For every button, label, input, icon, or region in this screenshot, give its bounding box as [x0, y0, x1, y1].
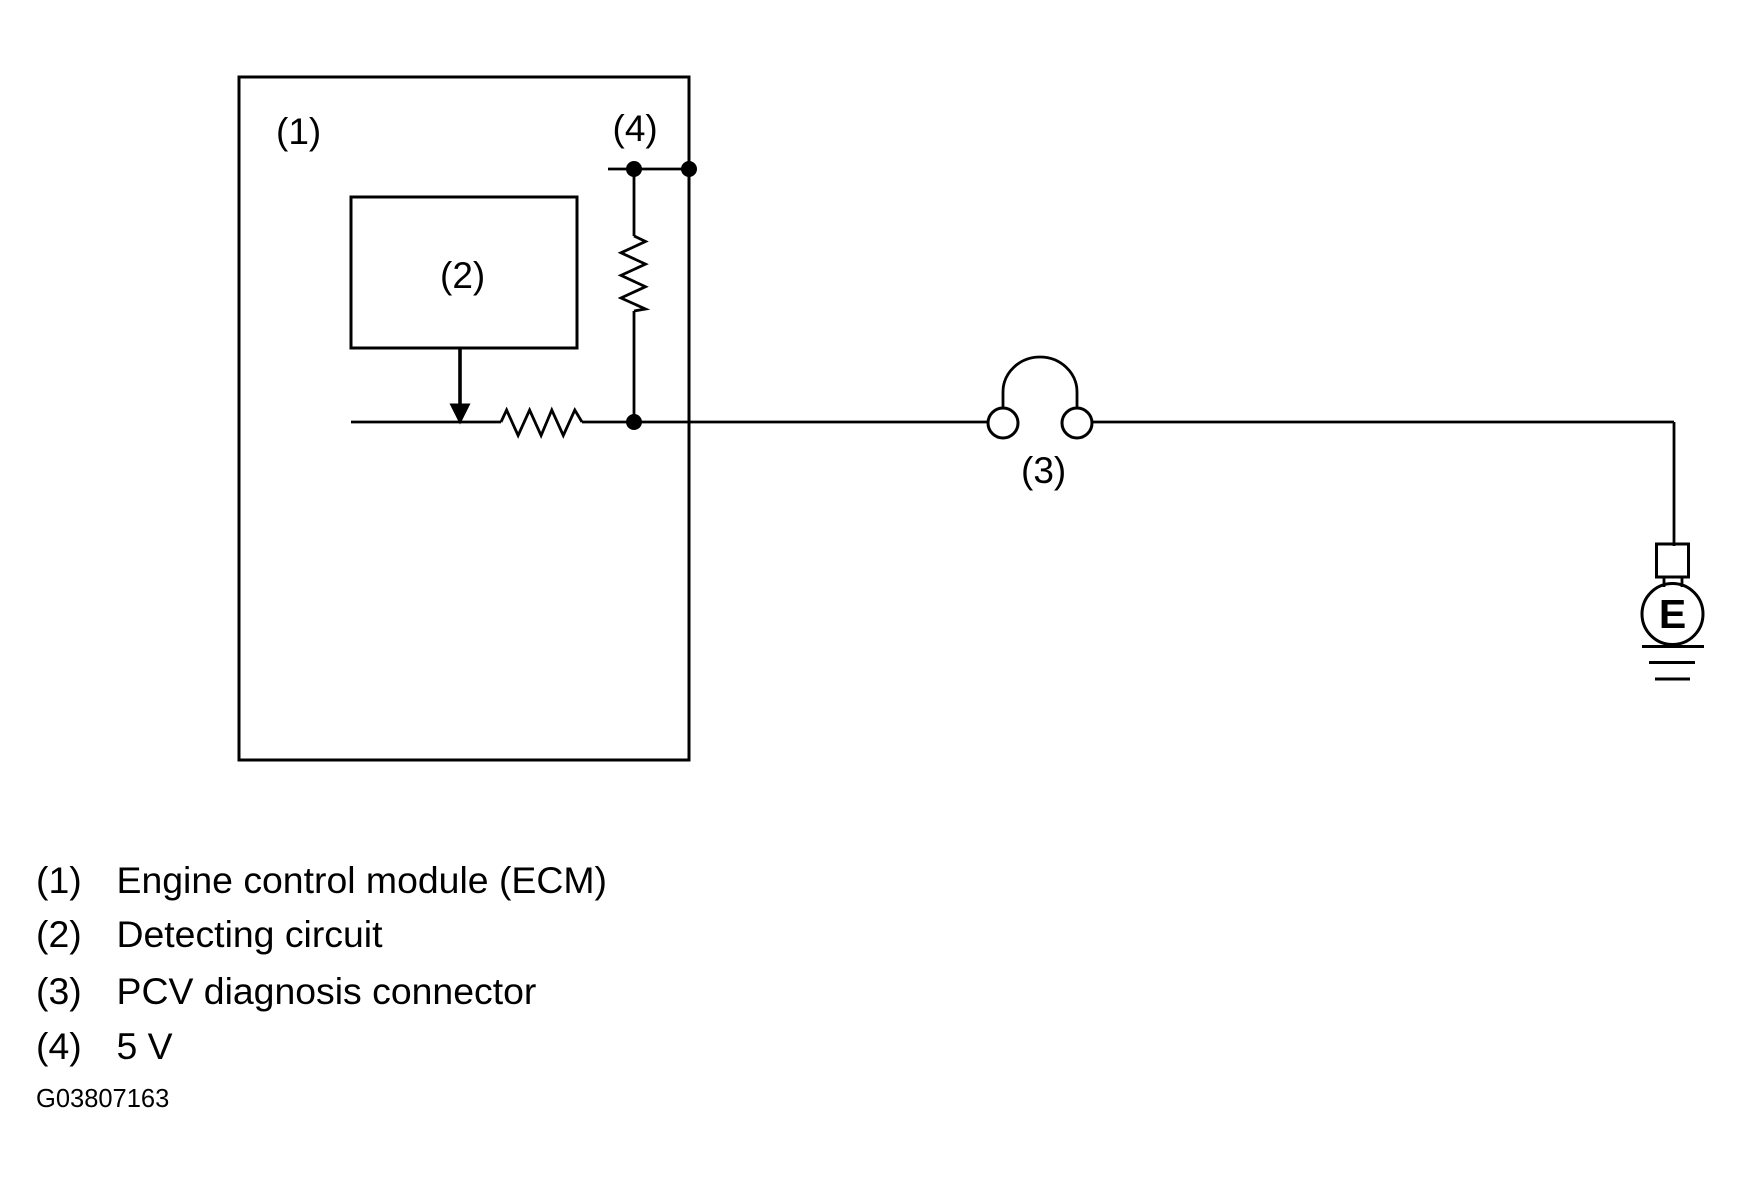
svg-text:Detecting circuit: Detecting circuit: [117, 913, 384, 955]
arrowhead into signal wire: [450, 404, 471, 425]
wire 5V supply horizontal: [608, 168, 689, 171]
connector housing rectangle: [1657, 544, 1689, 577]
node junction dot at 5V left: [626, 161, 642, 177]
resistor R2 series zigzag: [501, 410, 582, 436]
svg-text:(2): (2): [440, 255, 485, 296]
svg-text:5 V: 5 V: [117, 1025, 173, 1067]
svg-text:(1): (1): [276, 111, 321, 152]
wire connector to right corner: [1092, 421, 1674, 424]
wire signal left segment: [351, 421, 501, 424]
wire down to ground connector: [1673, 422, 1676, 546]
connector pin circle right: [1062, 408, 1092, 438]
wire arrow shaft from detecting circuit: [458, 348, 462, 406]
engine control module box U1 (1): [239, 77, 689, 760]
svg-text:(4): (4): [613, 108, 658, 149]
svg-text:(2): (2): [36, 913, 82, 955]
bulb neck left: [1663, 577, 1666, 587]
svg-text:(3): (3): [36, 970, 82, 1012]
ground bar 1: [1642, 645, 1704, 648]
svg-text:G03807163: G03807163: [36, 1085, 169, 1113]
svg-text:(1): (1): [36, 859, 82, 901]
jumper arc over PCV diagnosis connector: [1003, 357, 1077, 409]
svg-text:(3): (3): [1021, 450, 1066, 491]
svg-text:E: E: [1659, 591, 1686, 637]
connector pin circle left: [988, 408, 1018, 438]
wire signal to connector: [582, 421, 988, 424]
ground bar 2: [1649, 661, 1695, 664]
svg-text:(4): (4): [36, 1025, 82, 1067]
bulb neck right: [1681, 577, 1684, 587]
ground bar 3: [1655, 678, 1690, 681]
svg-text:Engine control module (ECM): Engine control module (ECM): [117, 859, 607, 901]
svg-text:PCV diagnosis connector: PCV diagnosis connector: [117, 970, 537, 1012]
resistor R1 pull-up zigzag: [621, 236, 646, 311]
ground point circle E: [1642, 584, 1703, 645]
node junction dot at 5V right on ECM edge: [681, 161, 697, 177]
wire pull-up resistor top lead: [633, 169, 636, 236]
detecting circuit box (2): [351, 197, 577, 348]
node junction dot on signal wire: [626, 414, 642, 430]
wire pull-up resistor bottom lead: [633, 311, 636, 422]
